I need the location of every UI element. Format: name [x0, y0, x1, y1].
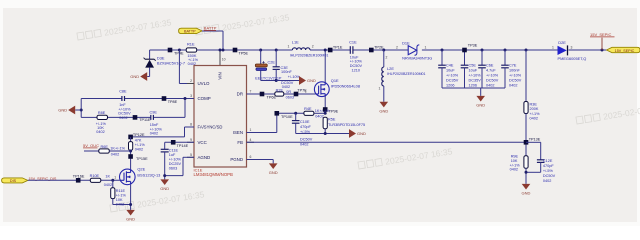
ground divider: [522, 184, 531, 190]
svg-text:C2E: C2E: [268, 61, 276, 65]
junction C9E riser to COMP: [184, 97, 187, 100]
svg-text:10K: 10K: [511, 159, 518, 163]
svg-text:TP8E: TP8E: [168, 100, 178, 104]
wire 47K to gate node: [130, 150, 132, 169]
junction R3E-rail: [525, 49, 528, 52]
wire 5V_OUC to R6E: [84, 150, 99, 152]
resistor R10E: [90, 178, 101, 182]
testpoint TP11E: [133, 115, 138, 120]
ground L2E: [380, 102, 389, 108]
svg-text:ISEN: ISEN: [233, 130, 243, 135]
svg-text:1: 1: [305, 90, 307, 94]
svg-text:C6E: C6E: [486, 64, 494, 68]
diode D2E PMEG6005ET: [558, 46, 567, 55]
svg-text:GND: GND: [307, 78, 316, 83]
junction C10E top: [294, 112, 297, 115]
svg-text:R8E: R8E: [98, 111, 106, 115]
svg-text:LM3481QMM/NOPB: LM3481QMM/NOPB: [194, 172, 234, 177]
svg-text:GND: GND: [160, 186, 169, 191]
svg-text:IPD50N06S4L08: IPD50N06S4L08: [331, 83, 360, 88]
testpoint TP3E: [462, 48, 467, 53]
svg-text:C10E: C10E: [300, 120, 310, 124]
watermark bottom-left: [110, 201, 134, 212]
svg-text:0402: 0402: [282, 85, 290, 89]
wire Q1E source to sense: [324, 97, 326, 114]
resistor R5E sense: [323, 117, 327, 128]
junction R5E bottom: [324, 132, 327, 135]
svg-text:1K+/-1%: 1K+/-1%: [315, 109, 330, 113]
watermark upper-middle: [195, 24, 219, 35]
testpoint TP1E: [328, 48, 333, 53]
wire top rail mid segment: [197, 49, 293, 51]
svg-text:0402: 0402: [315, 114, 323, 118]
testpoint TP10E: [275, 111, 280, 116]
svg-text:R11E: R11E: [116, 189, 126, 193]
svg-text:D2E: D2E: [558, 40, 566, 45]
net stub 15V_SEPIC: [601, 38, 603, 50]
diode D3E zener: [145, 58, 154, 60]
junction UVLO drop: [178, 49, 181, 52]
svg-text:VIN: VIN: [218, 72, 223, 79]
svg-text:D1E: D1E: [402, 40, 410, 45]
resistor R3E: [525, 50, 527, 102]
svg-text:1: 1: [250, 128, 252, 132]
svg-text:0402: 0402: [530, 117, 538, 121]
testpoint TP8E: [162, 96, 167, 101]
svg-text:BATTP: BATTP: [184, 30, 196, 34]
wire VIN stub: [219, 50, 221, 66]
wire COMP line: [81, 98, 122, 100]
wire zener anode to gnd: [149, 68, 151, 77]
inductor L1E: [292, 48, 310, 50]
ground comp network: [80, 109, 83, 112]
svg-text:2: 2: [386, 56, 388, 60]
svg-text:5V_OUC: 5V_OUC: [83, 143, 99, 148]
svg-text:DC50V: DC50V: [509, 79, 522, 83]
capacitor C3E: [275, 50, 277, 67]
svg-text:10: 10: [222, 58, 226, 62]
svg-text:+/-10%: +/-10%: [169, 158, 182, 162]
testpoint TP13E: [524, 140, 529, 145]
junction BATTP-rail: [222, 49, 225, 52]
svg-text:+/-10%: +/-10%: [486, 74, 499, 78]
ground Q2E source: [126, 210, 135, 216]
inductor L2E: [383, 50, 385, 67]
wire sense row: [277, 112, 304, 114]
watermark top-left: [77, 29, 101, 40]
junction divider gnd: [525, 171, 528, 174]
svg-text:GND: GND: [522, 191, 531, 196]
svg-text:R3E: R3E: [530, 103, 538, 107]
capacitor C11E: [164, 142, 166, 149]
svg-text:1: 1: [288, 44, 290, 48]
svg-text:BATTP: BATTP: [204, 25, 217, 30]
wire sense gnd bus: [296, 133, 349, 135]
svg-text:2: 2: [396, 45, 398, 49]
resistor R2E: [275, 92, 284, 96]
svg-text:3: 3: [571, 45, 573, 49]
capacitor C2E electrolytic: [260, 50, 262, 64]
svg-text:1uF: 1uF: [169, 153, 176, 157]
svg-text:IHLP2020BZER100M01: IHLP2020BZER100M01: [387, 72, 426, 76]
svg-text:100nF: 100nF: [281, 70, 292, 74]
wire D1E to D2E output rail: [422, 49, 558, 51]
svg-text:8: 8: [190, 123, 192, 127]
capacitor C7E: [504, 49, 507, 52]
svg-text:2: 2: [190, 79, 192, 83]
svg-text:TP15E: TP15E: [136, 157, 148, 161]
resistor R11E: [112, 180, 114, 188]
IC pin stubs: [187, 83, 194, 85]
svg-text:0402: 0402: [96, 130, 104, 134]
svg-text:R1E: R1E: [187, 41, 195, 46]
svg-text:D3E: D3E: [157, 55, 165, 60]
svg-text:COMP: COMP: [198, 96, 211, 101]
svg-text:AGND: AGND: [198, 155, 211, 160]
svg-text:TP13E: TP13E: [529, 137, 541, 141]
resistor R7E 47K: [130, 137, 132, 142]
wire DIS to gate: [28, 179, 91, 181]
svg-text:470pF: 470pF: [543, 164, 554, 168]
svg-text:R9E: R9E: [511, 155, 519, 159]
svg-text:10uF: 10uF: [446, 69, 455, 73]
testpoint TP14E: [171, 140, 176, 145]
svg-text:R5E: R5E: [328, 118, 336, 122]
resistor R4E: [304, 111, 314, 115]
svg-text:1: 1: [114, 176, 116, 180]
wire comp left vertical: [80, 99, 82, 118]
svg-text:R10E: R10E: [90, 174, 100, 178]
svg-text:GND: GND: [58, 108, 67, 113]
svg-text:10uF: 10uF: [350, 55, 359, 59]
svg-text:C7E: C7E: [509, 64, 517, 68]
svg-text:0402: 0402: [486, 84, 494, 88]
svg-text:DR: DR: [237, 92, 243, 97]
svg-text:TP3E: TP3E: [468, 43, 478, 47]
svg-text:IHLP2020BZER100M01: IHLP2020BZER100M01: [290, 53, 329, 57]
testpoint TP7E: [294, 92, 299, 97]
port flag BATTP: [179, 28, 202, 33]
svg-text:L1E: L1E: [292, 39, 299, 44]
svg-text:0603: 0603: [169, 167, 177, 171]
svg-text:1206: 1206: [469, 84, 477, 88]
junction 15V stub: [601, 49, 604, 52]
svg-text:1K: 1K: [105, 175, 110, 179]
svg-text:TP11E: TP11E: [139, 118, 151, 122]
svg-text:UVLO: UVLO: [198, 81, 211, 86]
svg-text:+/-1%: +/-1%: [116, 194, 127, 198]
svg-text:TP12E: TP12E: [133, 133, 145, 137]
ground output caps: [480, 88, 482, 96]
svg-text:TP1E: TP1E: [333, 46, 343, 50]
svg-text:C5E: C5E: [469, 64, 477, 68]
svg-text:+/-1%: +/-1%: [135, 143, 146, 147]
svg-text:10uF: 10uF: [469, 69, 478, 73]
svg-text:0402: 0402: [543, 179, 551, 183]
svg-text:Q2E: Q2E: [137, 167, 145, 172]
svg-text:9: 9: [190, 138, 192, 142]
resistor R6E: [99, 149, 110, 153]
svg-text:2: 2: [312, 44, 314, 48]
svg-text:0402: 0402: [509, 84, 517, 88]
svg-text:TP10E: TP10E: [281, 115, 293, 119]
testpoint TP2E: [369, 48, 374, 53]
svg-text:NRVBA340NT3G: NRVBA340NT3G: [402, 56, 432, 61]
svg-text:+/-10%: +/-10%: [469, 74, 482, 78]
testpoint TP12E: [128, 135, 133, 140]
junction drain-rail: [324, 49, 327, 52]
svg-text:C9E: C9E: [150, 110, 158, 114]
svg-text:VCC: VCC: [198, 140, 207, 145]
ground PGND: [269, 163, 278, 169]
svg-text:DC50V: DC50V: [486, 79, 499, 83]
wire switch node segment: [310, 49, 350, 51]
wire C1E to D1E: [353, 49, 408, 51]
svg-text:DC25V: DC25V: [169, 162, 182, 166]
capacitor C9E: [150, 115, 152, 120]
junction AGND/C11E: [163, 174, 166, 177]
svg-text:C11E: C11E: [169, 149, 179, 153]
svg-text:15V_SEPIC: 15V_SEPIC: [590, 32, 611, 37]
svg-text:0402: 0402: [135, 147, 143, 151]
svg-text:R4E: R4E: [304, 107, 312, 111]
wire VCC net: [165, 141, 194, 143]
capacitor C8E: [121, 96, 123, 101]
wire DR net: [247, 93, 275, 95]
svg-text:6: 6: [250, 155, 252, 159]
svg-text:TP5E: TP5E: [239, 52, 249, 56]
svg-text:PGND: PGND: [230, 157, 243, 162]
svg-text:3: 3: [190, 94, 192, 98]
svg-text:0402: 0402: [510, 168, 518, 172]
svg-text:GND: GND: [126, 217, 135, 222]
svg-text:100nF: 100nF: [509, 69, 520, 73]
wire comp lower row: [81, 116, 97, 118]
wire output gnd bus: [442, 87, 505, 89]
junction source/R11E: [129, 203, 132, 206]
diode D1E NRVBA340NT3G: [408, 45, 419, 55]
svg-text:GND: GND: [357, 131, 366, 136]
svg-text:1210: 1210: [352, 69, 360, 73]
svg-text:C4E: C4E: [446, 64, 454, 68]
svg-text:0402: 0402: [300, 143, 308, 147]
svg-text:C12E: C12E: [543, 159, 553, 163]
testpoint TP5E: [233, 48, 238, 53]
svg-text:R6E: R6E: [101, 145, 109, 149]
svg-text:GND: GND: [130, 74, 139, 79]
svg-text:0603: 0603: [286, 95, 294, 99]
wire to gnd arrow: [276, 80, 299, 82]
wire Q2E source down: [130, 185, 132, 210]
testpoint TP15E: [128, 154, 133, 159]
watermark middle-right: [358, 158, 382, 169]
junction C2E/C3E bottoms: [275, 79, 278, 82]
svg-text:TP2E: TP2E: [374, 46, 384, 50]
testpoint TP9E: [323, 107, 328, 112]
svg-text:1: 1: [552, 45, 554, 49]
capacitor C12E: [526, 141, 541, 143]
transistor Q1E IPD50N06S4L08: [314, 82, 329, 97]
svg-text:DIS: DIS: [10, 179, 17, 183]
svg-text:PMEG6005ET,Q: PMEG6005ET,Q: [558, 56, 587, 61]
capacitor C5E: [464, 50, 466, 65]
svg-text:DC50V: DC50V: [350, 64, 363, 68]
ground sense bus: [349, 129, 356, 138]
svg-text:GND: GND: [476, 103, 485, 108]
svg-text:+/-10%: +/-10%: [350, 60, 363, 64]
capacitor C1E coupling: [349, 46, 351, 54]
svg-text:TLR3BPDTD15L0F75: TLR3BPDTD15L0F75: [328, 123, 365, 127]
svg-text:TP16E: TP16E: [73, 175, 85, 179]
wire FB net long: [247, 141, 527, 143]
svg-text:GND: GND: [379, 108, 388, 113]
svg-text:0R: 0R: [286, 90, 291, 94]
svg-text:7: 7: [250, 90, 252, 94]
wire from BATTP flag: [202, 30, 223, 32]
svg-text:1: 1: [425, 45, 427, 49]
svg-text:L2E: L2E: [387, 66, 394, 71]
ground C11E/AGND: [160, 179, 169, 185]
svg-text:1K+/-1%: 1K+/-1%: [110, 146, 125, 150]
svg-text:0402: 0402: [111, 153, 119, 157]
wire zener to rail: [149, 50, 151, 59]
ground zener: [140, 72, 147, 81]
svg-text:0402: 0402: [104, 183, 112, 187]
svg-text:1: 1: [379, 87, 381, 91]
op-amp/controller U1 IC1E LM3481 body: [194, 66, 247, 168]
wire D2E to output flag: [569, 49, 608, 51]
svg-text:FA/SYNC/SD: FA/SYNC/SD: [198, 125, 223, 130]
capacitor C6E: [481, 49, 484, 52]
svg-text:10K: 10K: [116, 198, 123, 202]
svg-text:DC50V: DC50V: [300, 138, 313, 142]
svg-text:DC50V: DC50V: [543, 174, 556, 178]
svg-text:+/-10%: +/-10%: [446, 74, 459, 78]
svg-text:470pF: 470pF: [300, 125, 311, 129]
capacitor C10E: [295, 113, 297, 120]
svg-text:BZX84C5V1Q-7: BZX84C5V1Q-7: [157, 61, 185, 66]
testpoint TP16E: [76, 178, 81, 183]
resistor R8E: [97, 115, 108, 119]
testpoint TP4E: [168, 48, 173, 53]
svg-text:+/-1%: +/-1%: [530, 112, 541, 116]
resistor R9E: [524, 156, 528, 169]
testpoint TP6E: [260, 92, 265, 97]
svg-text:4: 4: [250, 138, 252, 142]
watermark right-edge: [576, 113, 600, 124]
port flag DIS (15V_SEPIC_DIS): [2, 178, 28, 183]
svg-text:5: 5: [190, 153, 192, 157]
svg-text:+/-10%: +/-10%: [509, 74, 522, 78]
wire R11E bottom to source: [112, 199, 114, 205]
svg-text:C1E: C1E: [349, 39, 357, 44]
wire top rail left segment: [150, 49, 187, 51]
capacitor C4E: [441, 49, 444, 52]
resistor R1E: [186, 48, 197, 52]
junction C2E-rail: [259, 49, 262, 52]
wire ISEN net: [247, 132, 277, 134]
svg-text:200K: 200K: [530, 107, 539, 111]
wire UVLO net: [178, 50, 180, 84]
wire AGND net: [183, 156, 194, 158]
svg-text:BSS123Q-13: BSS123Q-13: [137, 172, 160, 177]
wire FA/SYNC/SD net: [185, 126, 195, 128]
junction R11E top: [111, 179, 114, 182]
junction C3E-rail: [275, 49, 278, 52]
junction sense/R4E: [324, 112, 327, 115]
svg-text:1206: 1206: [446, 84, 454, 88]
svg-text:FB: FB: [237, 140, 243, 145]
svg-text:DC35V: DC35V: [469, 79, 482, 83]
svg-text:15V_SEPIC: 15V_SEPIC: [615, 49, 635, 53]
svg-text:GND: GND: [269, 170, 278, 175]
junction L2E-rail: [382, 49, 385, 52]
svg-text:TP9E: TP9E: [329, 109, 339, 113]
svg-text:47K: 47K: [135, 138, 142, 142]
svg-text:+/-5%: +/-5%: [543, 169, 554, 173]
transistor Q2E BSS123Q-13: [120, 169, 136, 185]
wire divider bottom: [525, 168, 527, 184]
junction R6E node: [129, 150, 132, 153]
junction VIN-rail: [219, 49, 222, 52]
svg-text:+/-10%: +/-10%: [288, 75, 301, 79]
svg-text:4.7uF: 4.7uF: [486, 69, 496, 73]
svg-text:0402: 0402: [150, 132, 158, 136]
svg-text:TP14E: TP14E: [177, 144, 189, 148]
wire PGND net: [247, 159, 274, 161]
svg-text:C8E: C8E: [119, 90, 127, 94]
svg-text:+/-1%: +/-1%: [510, 163, 521, 167]
port flag 15V_SEPIC: [607, 47, 640, 52]
ground input filter: [299, 76, 306, 85]
wire C11E bottom: [164, 152, 166, 180]
svg-text:DC35V: DC35V: [446, 79, 459, 83]
wire Q1E drain: [324, 50, 326, 82]
wire R6E to node: [109, 150, 130, 152]
